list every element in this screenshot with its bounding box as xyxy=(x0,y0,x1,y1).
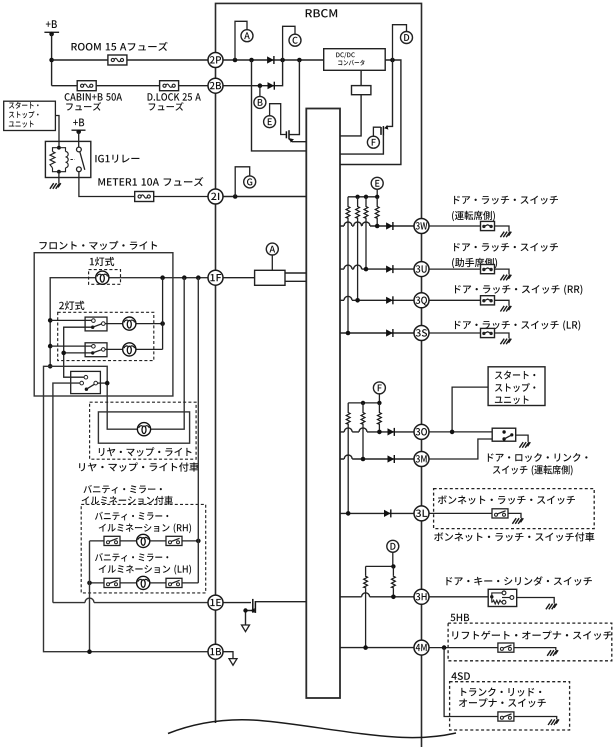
ground (3H) xyxy=(546,604,557,610)
wire 3S line xyxy=(340,332,415,334)
switch door latch (passenger) xyxy=(481,265,495,274)
connector pin 3S xyxy=(414,326,429,341)
flag G xyxy=(235,167,256,197)
wire 1B to ground xyxy=(222,652,233,659)
label door latch switch (RR) xyxy=(455,285,582,295)
start-stop unit box (right) xyxy=(488,367,545,406)
node F bar x379.4 xyxy=(377,401,381,405)
node on 2I line (G branch) xyxy=(233,194,238,199)
component (capacitor block) under DC/DC xyxy=(340,70,371,136)
flag F (lock group) xyxy=(373,382,385,403)
wire switch2 common xyxy=(64,352,91,354)
flag D (key group) xyxy=(387,540,399,566)
resistor R1 xyxy=(346,206,350,219)
flag C xyxy=(283,26,301,60)
wire 3O to lock-link switch xyxy=(428,431,492,433)
wire F group bar xyxy=(348,402,379,404)
label rear map light equipped xyxy=(79,462,199,471)
wire 3O line xyxy=(340,428,415,432)
dashed box rear map light xyxy=(90,402,197,459)
flag E (pull-up group) xyxy=(371,177,383,197)
label door lock link switch xyxy=(488,453,588,462)
node 3W line xyxy=(375,224,380,229)
label ROOM 15 A fuse xyxy=(72,42,168,51)
connector pin 3L xyxy=(414,506,429,521)
lamp (2-lamp A) xyxy=(123,317,136,330)
wire feed to switch2 xyxy=(50,345,91,347)
switch trunk lid opener xyxy=(498,712,514,721)
node 3S line xyxy=(346,331,351,336)
label liftgate opener switch xyxy=(452,631,612,640)
wire ROOM fuse line to 2P xyxy=(52,59,210,61)
fuse D.LOCK 25A xyxy=(160,81,179,91)
node feed bend xyxy=(48,364,53,369)
wire pull-up column x348 xyxy=(347,197,349,333)
ground (1B) xyxy=(229,659,237,666)
wire CABIN/D.LOCK line to 2B xyxy=(52,85,210,87)
transistor Q1 (2P switch) xyxy=(286,60,306,143)
node junction on ROOM line xyxy=(49,58,54,63)
wire key column x393.4 xyxy=(392,566,394,596)
node feed sw2 xyxy=(48,344,53,349)
node 3U line xyxy=(364,267,369,272)
wire to 1B rail xyxy=(44,366,210,651)
switch vanity RH left xyxy=(104,536,120,545)
connector pin 4M xyxy=(414,640,429,655)
label vanity mirror LH xyxy=(95,553,168,562)
connector pin 2P xyxy=(208,53,223,68)
label 1-lamp type xyxy=(90,257,114,266)
RBCM label xyxy=(306,9,337,17)
wire +B to relay contact xyxy=(78,132,80,148)
resistor R6 xyxy=(361,412,365,425)
node DC/DC output (D flag / Q2 drain) xyxy=(390,58,395,63)
diode D-3U xyxy=(386,265,393,273)
flag A (above 1F block) xyxy=(266,243,278,270)
node F bar x363 xyxy=(361,401,365,405)
wire door switch left contact to 1E rail xyxy=(53,383,80,602)
label vanity mirror illumination equipped xyxy=(83,485,161,494)
rear map light box xyxy=(98,412,189,443)
diode D-3L xyxy=(384,509,391,517)
wire 2P line inside RBCM to DC/DC xyxy=(222,59,324,61)
node on 2P line (bus branch) xyxy=(249,58,254,63)
wire lock column x348.2 xyxy=(347,403,349,514)
battery symbol +B (top left) xyxy=(44,20,59,36)
switch door latch (driver) xyxy=(481,221,495,230)
dashed box vanity mirror xyxy=(81,504,206,593)
node vanity LH left xyxy=(87,581,92,586)
ground (3Q) xyxy=(500,306,511,312)
wire 3L line xyxy=(340,512,415,514)
node E bar x357.6 xyxy=(355,195,359,199)
label bonnet latch switch equipped xyxy=(434,532,594,541)
connector pin 2I xyxy=(208,189,223,204)
flag D xyxy=(393,25,413,60)
fuse CABIN+B 50A xyxy=(77,81,96,91)
label bonnet latch switch xyxy=(438,495,575,504)
resistor R9 xyxy=(392,575,396,588)
wire DC/DC output xyxy=(340,60,401,165)
ground (3L) xyxy=(512,518,523,524)
wire feed to rear lamp riser xyxy=(50,278,184,430)
switch vanity LH right xyxy=(166,578,182,587)
diode D-3Q xyxy=(386,296,393,304)
wire start-stop unit to relay coil xyxy=(55,116,59,148)
label door latch switch (passenger) xyxy=(454,243,558,252)
node vanity RH right riser xyxy=(196,539,201,544)
node on 2B line (B branch) xyxy=(258,83,263,88)
label D.LOCK 25 A fuse xyxy=(148,93,201,101)
diode on 2B line xyxy=(268,82,275,90)
wire +B down to fuse lines xyxy=(51,34,53,86)
label 5HB xyxy=(450,614,469,622)
connector pin 3O xyxy=(414,424,429,439)
wire door switch right contact xyxy=(98,382,108,384)
ground (lock-link) xyxy=(519,442,530,448)
node feed sw1 xyxy=(48,318,53,323)
wire 3M line xyxy=(340,455,415,459)
label vanity mirror RH xyxy=(95,512,168,521)
connector pin 1F xyxy=(208,270,223,285)
wire start-stop unit to 3O line xyxy=(452,387,488,432)
fuse ROOM 15A xyxy=(108,55,127,65)
wire lock column x379.4 xyxy=(378,403,380,432)
transistor Q3 (1E input) xyxy=(222,599,306,625)
dashed box trunk lid opener xyxy=(450,682,570,730)
node on 2P line (C / 2B join) xyxy=(280,58,285,63)
wire 3H line xyxy=(340,593,415,597)
node on 2P line (A branch) xyxy=(233,58,238,63)
wave (torn edge) xyxy=(168,720,456,738)
diode D-3M xyxy=(388,455,395,463)
front map light box xyxy=(34,253,173,396)
lamp rear map light xyxy=(137,423,150,436)
wire D group bar xyxy=(366,565,394,567)
wire pull-up column x377.2 xyxy=(376,197,378,226)
resistor R4 xyxy=(375,206,379,219)
wire pull-up column x366 xyxy=(365,197,367,269)
node 3O start-stop branch xyxy=(450,430,455,435)
wire 3S to latch switch xyxy=(428,333,509,338)
label 2-lamp type xyxy=(59,301,84,310)
wire lock column x363 xyxy=(362,403,364,459)
start-stop unit box (left) xyxy=(4,101,56,130)
wire 3W line (hops over columns) xyxy=(340,222,415,226)
connector pin 1B xyxy=(208,644,223,659)
switch map lamp 1 xyxy=(85,317,107,331)
wire 3Q to latch switch xyxy=(428,300,509,305)
node E bar x366 xyxy=(364,195,368,199)
connector pin 3M xyxy=(414,452,429,467)
node 1F line x198.3 xyxy=(196,275,201,280)
wire key column x365.6 xyxy=(365,566,367,647)
resistor R5 xyxy=(346,412,350,425)
flag A xyxy=(235,21,253,60)
label METER1 10A fuse xyxy=(98,177,203,186)
resistor R8 xyxy=(364,575,368,588)
node 1F line x162.6 xyxy=(160,275,165,280)
wire 1F lamp feed line xyxy=(50,278,209,367)
wire 3M to lock-link switch xyxy=(428,439,492,459)
wire vanity right riser xyxy=(197,278,199,583)
connector pin 1E xyxy=(208,595,223,610)
switch vanity LH left xyxy=(104,578,120,587)
node 3Q line xyxy=(355,298,360,303)
connector pin 3Q xyxy=(414,293,429,308)
wire 3U line xyxy=(340,265,415,269)
ground (relay coil) xyxy=(50,183,61,189)
label IG1 relay xyxy=(95,155,139,163)
internal bus bar (tall rectangle) xyxy=(306,109,340,699)
connector pin 3W xyxy=(414,219,429,234)
lamp (2-lamp B) xyxy=(123,343,136,356)
ground (Q3 source) xyxy=(242,625,250,632)
label trunk lid opener switch xyxy=(461,688,541,697)
node switch commons join xyxy=(61,351,66,356)
wire pull-up column x357.6 xyxy=(357,197,359,300)
connector pin 2B xyxy=(208,78,223,93)
lamp vanity LH xyxy=(137,576,150,589)
resistor R2 xyxy=(356,206,360,219)
resistor R7 xyxy=(378,412,382,425)
wire E group bar xyxy=(348,196,377,198)
wire riser x162.6 xyxy=(162,278,164,350)
lamp (1-lamp type) xyxy=(96,271,109,284)
switch door latch (RR) xyxy=(481,296,495,305)
connector pin 3H xyxy=(414,589,429,604)
node E bar x377.2 xyxy=(375,195,379,199)
lamp vanity RH xyxy=(137,534,150,547)
diode on 2P line xyxy=(267,56,274,64)
switch liftgate opener xyxy=(498,643,514,652)
relay IG1 xyxy=(45,141,90,177)
wire 3Q line xyxy=(340,296,415,300)
switch door lock link xyxy=(492,428,516,441)
wire switch1 to lamp to riser xyxy=(105,323,163,325)
node 3H line xyxy=(391,595,396,600)
node lamp A riser xyxy=(160,321,165,326)
dashed box liftgate opener xyxy=(448,623,612,661)
1F interface block xyxy=(222,270,306,285)
switch door key cylinder xyxy=(488,589,517,606)
RBCM module box (left, top and right edges) xyxy=(216,3,422,747)
node rear lamp riser xyxy=(105,381,110,386)
wire vanity RH row xyxy=(90,540,199,542)
wire 1E line with hop xyxy=(53,598,209,603)
label door latch switch (LR) xyxy=(455,320,580,330)
node 1F line x184.3 xyxy=(182,275,187,280)
wire switch2 to lamp B xyxy=(105,348,163,350)
label 4SD xyxy=(451,672,470,680)
label door key cylinder switch xyxy=(446,576,592,585)
wire 3L to bonnet switch xyxy=(428,513,521,518)
node 4M line xyxy=(363,645,368,650)
flag E (to transistor gate) xyxy=(264,104,286,135)
connector pin 3U xyxy=(414,262,429,277)
wire vanity LH row xyxy=(90,582,199,584)
wire 4M branch to trunk switch xyxy=(444,648,557,720)
label front map light xyxy=(39,241,157,250)
dashed box bonnet latch switch xyxy=(434,489,595,529)
wire 2I line to bus xyxy=(223,196,306,198)
ground (liftgate) xyxy=(547,650,558,656)
switch map lamp 2 xyxy=(85,343,107,357)
fuse METER1 10A xyxy=(135,192,154,202)
diode D-3W xyxy=(386,222,393,230)
flag B xyxy=(254,86,266,109)
flag F (Q2 gate) xyxy=(367,127,381,148)
transistor Q2 (DC/DC switch) xyxy=(340,60,393,154)
node on 2P line (transistor drain branch) xyxy=(297,58,302,63)
wire 3U to latch switch xyxy=(428,269,509,274)
ground (3W) xyxy=(500,232,511,238)
label door latch switch (driver) xyxy=(454,196,558,205)
node D bar xyxy=(391,564,395,568)
wire lock-link to ground xyxy=(516,435,528,442)
dashed box 1-lamp xyxy=(89,270,121,285)
node 4M branch xyxy=(442,645,447,650)
node 3O line xyxy=(377,430,382,435)
node vanity riser to 1B rail xyxy=(87,649,92,654)
DC/DC converter U1 xyxy=(324,49,386,71)
switch door latch (LR) xyxy=(481,328,495,337)
wire 3W to latch switch xyxy=(428,226,509,231)
wire 4M to liftgate switch xyxy=(428,648,556,650)
wire 2P branch down to bus xyxy=(252,60,307,151)
wire vanity left riser to 1B rail xyxy=(89,541,91,652)
wire 2B line inside RBCM xyxy=(222,60,283,86)
wire feed to switch1 xyxy=(50,319,91,321)
switch vanity RH right xyxy=(166,536,182,545)
node 3M line xyxy=(361,457,366,462)
ground (3S) xyxy=(500,339,511,345)
battery symbol +B (second) xyxy=(72,119,86,135)
wire relay coil to ground xyxy=(58,174,60,183)
resistor R3 xyxy=(364,206,368,219)
diode D-3O xyxy=(388,428,395,436)
ground (3U) xyxy=(500,275,511,281)
switch bonnet latch xyxy=(492,509,508,518)
wire switch1 common xyxy=(64,327,91,377)
door switch (map lights) xyxy=(71,371,101,393)
label rear map light xyxy=(99,447,192,456)
diode D-3S xyxy=(386,329,393,337)
ground (trunk) xyxy=(548,719,559,725)
label CABIN+B 50A fuse xyxy=(65,93,122,101)
wire relay contact to METER1 fuse line and 2I xyxy=(79,172,209,197)
dashed box 2-lamp xyxy=(58,312,154,360)
wire 4M line xyxy=(340,647,415,649)
node 3L line xyxy=(346,511,351,516)
wire 3H to key cylinder switch xyxy=(428,597,554,604)
